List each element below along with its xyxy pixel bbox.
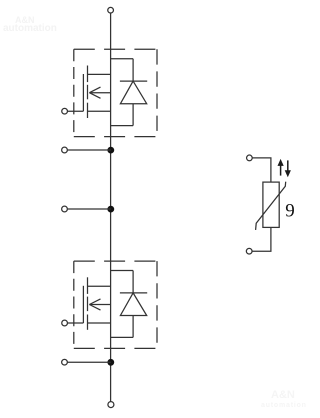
node source2: junction dot [107,359,114,366]
source stub [88,110,111,112]
dashed module outline (top switch) [74,49,157,136]
transistor Q1 (MOSFET, top) [67,66,110,119]
terminal aux 2 [62,206,68,212]
terminal thermistor bottom [246,248,252,254]
watermark top-left [15,16,35,25]
wire main vertical bus [110,13,112,402]
wire junction3 to aux terminal [67,361,111,363]
gate lead [67,110,83,112]
cathode branch [132,59,134,81]
arrows up/down (bidirectional current) [278,159,291,177]
diode D2 (antiparallel, bottom) [111,271,148,338]
watermark bottom-right [271,390,295,401]
terminal thermistor top [247,155,253,161]
anode branch [132,104,134,126]
terminal gate G1 [62,108,68,114]
diode D1 (antiparallel, top) [111,59,148,126]
top join [111,58,134,60]
wire junction1 to aux terminal [67,149,111,151]
body stub with arrow [89,92,110,94]
label theta [285,201,295,222]
terminal gate G2 [62,320,68,326]
svg-text:9: 9 [285,201,295,222]
thermistor diagonal [256,182,286,230]
bottom join [111,125,134,127]
terminal aux 3 [62,359,68,365]
triangle [120,81,146,104]
wire thermistor bottom [252,227,271,251]
channel segments [87,66,89,83]
node AC2: junction dot [107,206,114,213]
dashed module outline (bottom switch) [74,261,157,348]
gate bar [82,74,84,111]
wire junction2 to aux terminal [67,208,111,210]
drain stub [88,73,111,75]
node AC1: junction dot [107,147,114,154]
wire thermistor top [252,158,271,182]
transistor Q2 (MOSFET, bottom) [67,277,110,330]
thermistor R1 body [263,182,279,227]
terminal aux 1 [62,147,68,153]
terminal top (drain of Q1) [108,7,114,13]
terminal bottom (source of Q2) [108,402,114,408]
cathode bar [120,80,147,82]
